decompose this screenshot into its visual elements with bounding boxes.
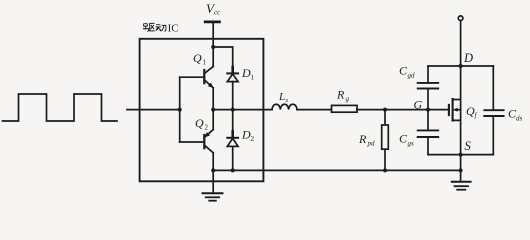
svg-text:ds: ds xyxy=(516,115,523,123)
svg-text:L: L xyxy=(278,91,285,103)
transistor Q1 xyxy=(204,67,213,88)
wire inductor to Rg xyxy=(297,109,332,111)
terminal drain circle xyxy=(458,16,463,21)
wire Rg to gate xyxy=(357,109,449,111)
svg-text:f: f xyxy=(475,112,478,120)
svg-text:2: 2 xyxy=(251,135,255,143)
svg-text:cc: cc xyxy=(214,9,221,17)
resistor Rpd xyxy=(382,110,389,171)
wire D1 anode down xyxy=(232,82,234,110)
junction source rail xyxy=(459,153,463,157)
svg-text:gs: gs xyxy=(408,140,415,148)
capacitor Cds xyxy=(484,66,503,155)
junction D2 rail xyxy=(231,168,235,172)
transistor Q2 xyxy=(204,130,213,153)
inductor Ls xyxy=(272,104,297,109)
ground driver xyxy=(203,170,223,200)
junction drain rail xyxy=(459,64,463,68)
square wave input signal xyxy=(3,94,118,121)
svg-text:gd: gd xyxy=(408,72,416,80)
wire base of Q1 xyxy=(180,76,205,78)
wire base of Q2 xyxy=(180,141,205,143)
svg-text:1: 1 xyxy=(203,59,207,67)
wire Q1 emitter down xyxy=(212,88,214,110)
svg-text:R: R xyxy=(336,88,345,102)
svg-text:2: 2 xyxy=(205,124,209,132)
wire source rail xyxy=(428,154,493,156)
power terminal Vcc bar xyxy=(205,20,219,23)
diode D1 xyxy=(227,67,238,82)
label 驱动IC xyxy=(143,23,166,31)
junction Rpd node xyxy=(383,108,387,112)
resistor Rg xyxy=(332,105,358,112)
junction output node xyxy=(211,108,215,112)
diode D2 xyxy=(227,131,238,146)
wire D2 anode down xyxy=(232,146,234,170)
wire Q2 collector down xyxy=(212,153,214,171)
svg-text:D: D xyxy=(241,128,251,142)
ground mosfet xyxy=(452,182,471,190)
svg-text:D: D xyxy=(241,66,251,80)
driver IC box xyxy=(140,39,264,182)
svg-text:1: 1 xyxy=(251,74,255,82)
svg-text:G: G xyxy=(414,98,423,112)
junction diode mid node xyxy=(231,108,235,112)
svg-text:g: g xyxy=(346,95,350,103)
junction Vcc node xyxy=(211,45,215,49)
wire input to driver xyxy=(127,109,180,111)
wire branch to D1 xyxy=(213,47,233,73)
wire output to inductor xyxy=(213,109,272,111)
junction gate cap node xyxy=(426,108,430,112)
svg-text:Q: Q xyxy=(195,116,204,130)
svg-text:pd: pd xyxy=(367,140,376,148)
svg-text:D: D xyxy=(463,51,473,65)
capacitor Cgd xyxy=(418,66,439,110)
svg-text:IC: IC xyxy=(168,22,179,34)
wire D2 cathode up xyxy=(232,110,234,138)
node base bracket xyxy=(179,77,181,142)
wire top cap rail xyxy=(428,65,493,67)
junction Q2 collector rail xyxy=(211,168,215,172)
wire source down xyxy=(460,120,462,181)
wire drain xyxy=(460,21,462,100)
wire Vcc stem and Q1 collector xyxy=(212,22,214,67)
svg-text:S: S xyxy=(465,139,472,153)
wire Q2 emitter up xyxy=(212,110,214,130)
junction Rpd bottom xyxy=(383,168,387,172)
mosfet Qf xyxy=(449,99,461,121)
svg-text:Q: Q xyxy=(193,51,202,65)
junction input node xyxy=(178,108,182,112)
capacitor Cgs xyxy=(418,110,439,155)
junction source ground rail xyxy=(459,168,463,172)
svg-text:R: R xyxy=(358,132,367,146)
svg-text:s: s xyxy=(286,97,289,104)
ground rail xyxy=(213,169,460,171)
